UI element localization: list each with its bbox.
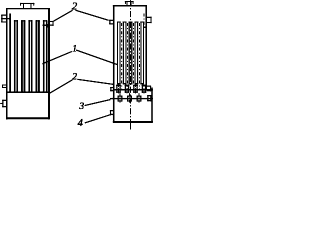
gap centerline D4 [138,23,140,89]
row A flange 3 stub [135,84,137,93]
left plate R3 left edge [28,20,30,92]
right tube T4 right edge [137,22,138,85]
left plate R4 left edge [36,20,38,92]
right tube T2 right edge [125,22,126,85]
row B bobbin 2 stub [129,93,131,103]
left plate R5 left edge [43,20,45,92]
leader 2top to right tank stub [75,10,108,20]
row B bobbin 1 stub [119,93,121,103]
gap centerline D5 [143,14,145,27]
left tank footer line [6,91,50,92]
right nozzle flange tick L [124,1,127,4]
left tank right stub right edge [52,21,55,26]
row A manifold line [113,89,153,90]
left lower notch top [2,100,6,101]
right tube T2 top cap [123,22,127,23]
right tank: top edge [113,5,147,6]
right tank: left wall [113,5,114,123]
row A flange 3 left bar [133,85,134,93]
row B bobbin 1 right [121,96,122,102]
right tube T1 right edge [120,22,121,85]
svg-text:1: 1 [72,44,77,54]
row A flange 4 stub [143,84,145,93]
right tube T4 top cap [135,22,139,23]
row B bobbin 1 bottom [118,101,123,102]
left plate R2 right edge [24,20,26,92]
left nozzle neck right [29,4,32,9]
right nozzle flange tick R [132,1,135,4]
row A left bracket top [110,87,113,88]
row A flange 3 bottom cap [133,92,137,93]
svg-text:4: 4 [78,118,84,129]
right tube T1 top cap [117,22,121,23]
row A flange 1 top cap [116,85,120,86]
left inlet stub left [1,15,2,23]
left plate R1 left edge [14,20,16,92]
row A flange 4 top cap [142,85,146,86]
row B bobbin 3 right [140,96,141,102]
left tank: left wall [6,8,8,119]
left plate R1 right edge [16,20,18,92]
left plate R2 left edge [21,20,23,92]
left plate R4 right edge [38,20,40,92]
left lower notch bottom [2,106,6,107]
leader 1 to right tubes [76,50,117,64]
left plate R3 top cap [28,20,32,21]
row A right flange edge [149,86,152,92]
left tank: top edge [6,8,50,9]
leader 1 to left plates [42,52,71,64]
leader 2top to left tank stub [54,10,73,21]
row A flange 4 left bar [142,85,143,93]
right tube T5 left edge [140,22,141,85]
row A right flange top [147,86,151,87]
left plate R5 top cap [43,20,47,21]
left tank connector block [46,24,50,27]
svg-text:2: 2 [72,72,77,82]
row A flange 4 right bar [145,85,146,93]
row A flange 1 right bar [120,85,121,93]
right tube T3 bottom cap [129,83,133,84]
row A flange 2 stub [126,84,128,93]
right tank: upper right wall [145,5,146,90]
lower left stub top [110,110,113,111]
left inlet stub top [1,15,6,16]
row A left bracket edge [110,87,111,91]
row A flange 2 right bar [128,85,129,93]
left tank right stub bottom [50,25,54,26]
row A flange 1 left bar [116,85,117,93]
row A flange 3 top cap [133,85,137,86]
right tank left stub top [109,20,113,21]
lower left stub bottom [110,114,113,115]
leader 2low to right tank wall [77,79,113,84]
right nozzle neck left [126,2,129,5]
row B manifold line [110,98,153,99]
row B bobbin 3 stub [138,93,140,103]
right tube T3 left edge [129,22,130,85]
row B bobbin 1 top [118,96,123,97]
row B bobbin 2 right [131,96,132,102]
left nozzle neck left [22,4,25,9]
left nozzle flange tick R [32,3,35,6]
right tank right stub right edge [150,17,153,23]
svg-text:3: 3 [78,102,84,112]
left inlet stub bottom [1,21,6,22]
right tube T1 left edge [117,22,118,85]
left drain stub bottom [2,86,6,89]
right tube T2 left edge [123,22,124,85]
left plate P1 (tall) [9,13,11,92]
row A right flange bottom [147,90,151,91]
leader 2low to left tank corner [50,80,73,93]
right nozzle flange [125,0,134,3]
left drain stub left [1,85,4,88]
right tank: bottom edge [113,121,153,123]
right tank left stub left [109,20,110,25]
right tube T4 bottom cap [135,83,139,84]
main centerline tail [130,121,132,130]
lower left stub left [110,110,111,115]
leader 3 to row B bracket [85,100,111,106]
left lower notch tick [0,102,2,105]
row A flange 2 bottom cap [125,92,129,93]
left tank: right wall [48,8,50,119]
left tank internal bracket [43,25,50,26]
left tank right stub top [50,21,54,22]
main vertical centerline [130,0,132,120]
row A flange 1 bottom cap [116,92,120,93]
right tank: outer lower right wall [151,88,152,123]
row B bobbin 2 bottom [127,101,132,102]
row B bobbin 3 top [137,96,142,97]
row B right flange top [147,95,151,96]
row B bobbin 2 top [127,96,132,97]
right tank right stub bottom [147,22,152,23]
right bracket tube5-wall [144,27,146,28]
row B bobbin 3 left [137,96,138,102]
right nozzle neck right [130,2,133,5]
right tank left stub bottom [109,23,113,24]
right tube T5 bottom cap [140,83,144,84]
left lower notch left [2,100,3,107]
row B right flange right [150,95,151,101]
row A flange 1 stub [118,84,120,93]
left nozzle flange [20,3,34,4]
right tube T2 bottom cap [123,83,127,84]
row A flange 4 bottom cap [142,92,146,93]
row A left bracket bottom [110,90,113,91]
row B bobbin 3 bottom [137,101,142,102]
gap centerline D2 [127,23,129,89]
row B bobbin 1 left [118,96,119,102]
left plate R5 right edge [46,20,48,92]
right tube T4 left edge [135,22,136,85]
gap centerline D1 [121,23,123,89]
right tube T5 top cap [140,22,144,23]
left drain stub top [2,84,6,87]
row A flange 2 top cap [125,85,129,86]
leader 4 to lower stub [85,114,113,123]
right tube T3 right edge [131,22,132,85]
row A flange 3 right bar [137,85,138,93]
left nozzle flange tick L [19,3,22,6]
left plate R4 top cap [36,20,40,21]
right tube T3 top cap [129,22,133,23]
left plate R3 right edge [31,20,33,92]
left plate R2 top cap [21,20,25,21]
right tank right stub top [147,17,152,18]
right tube T5 right edge [143,22,144,85]
left inlet stub pipe line [1,18,10,19]
row B bobbin 2 left [127,96,128,102]
gap centerline D3 [133,23,135,89]
row B right flange left [147,95,148,101]
right tube T1 bottom cap [117,83,121,84]
row A flange 2 left bar [125,85,126,93]
left plate R1 top cap [14,20,18,21]
left tank: bottom edge [6,117,50,119]
row B right flange bottom [147,100,151,101]
